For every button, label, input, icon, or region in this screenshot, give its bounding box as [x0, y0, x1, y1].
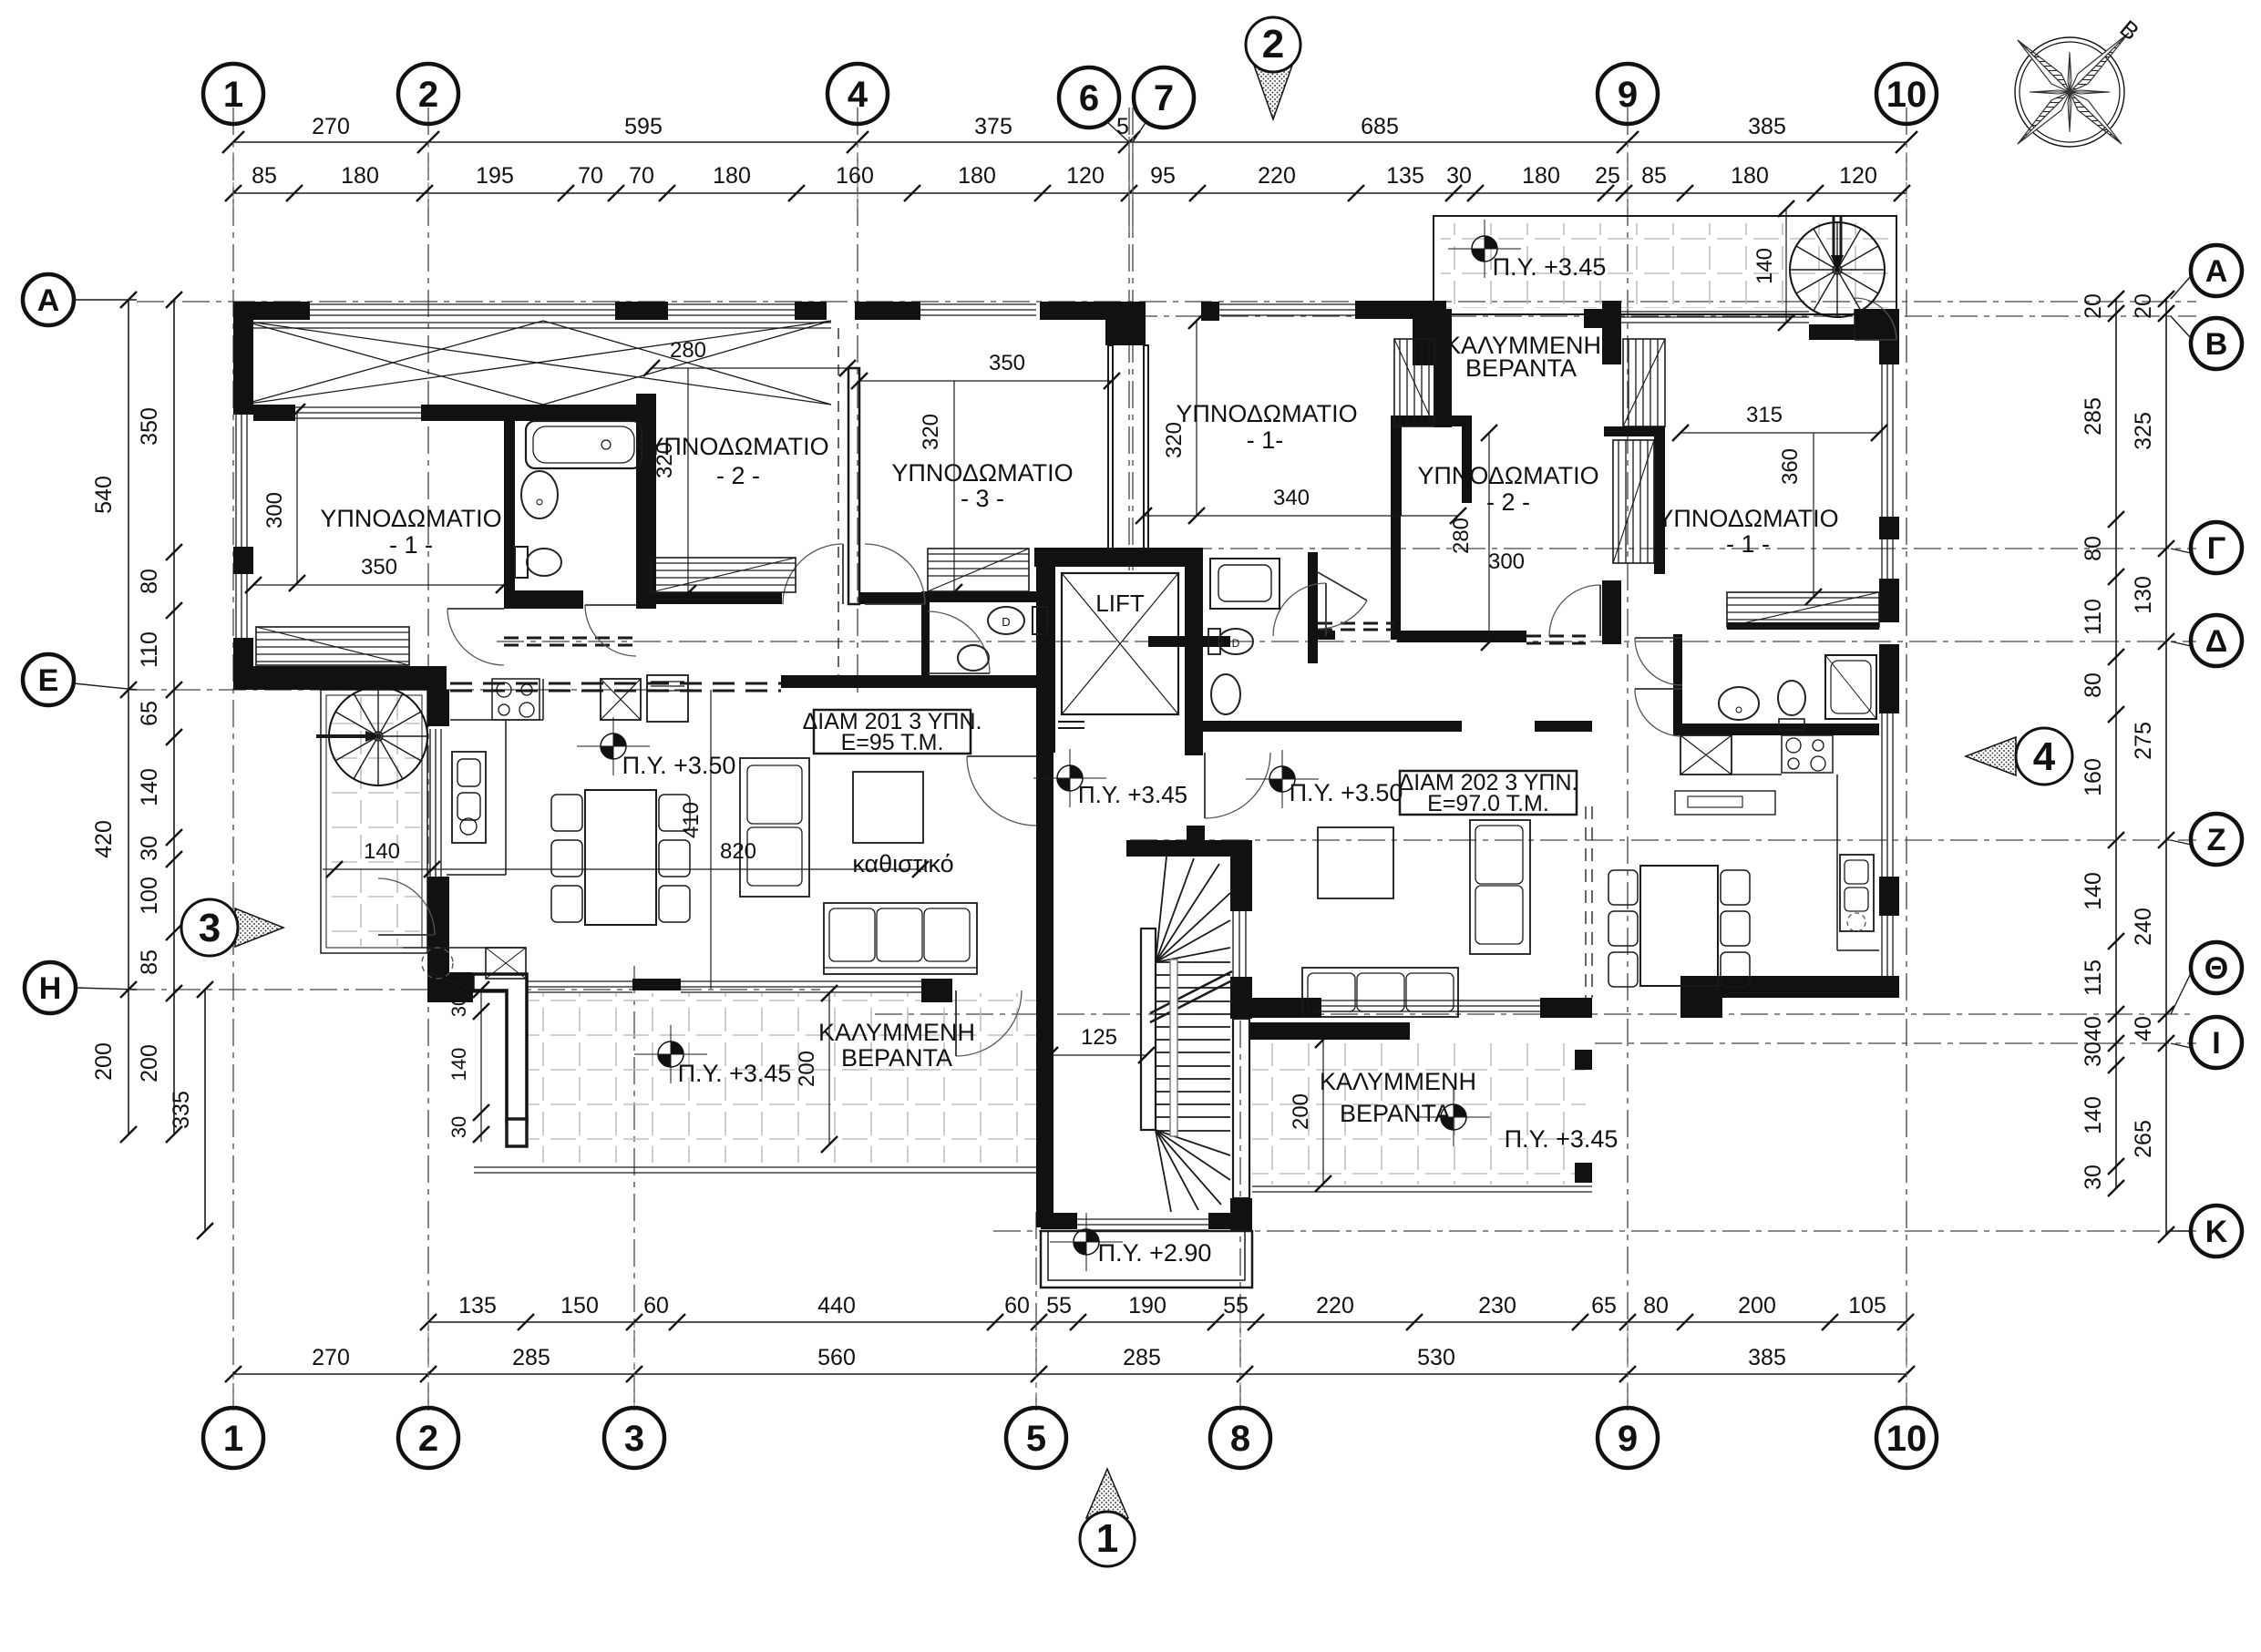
- wall veranda202 left vert: [1434, 309, 1452, 427]
- wall left col seg2: [233, 547, 253, 574]
- porch box: [1041, 1231, 1252, 1288]
- veranda bottom-left border: [474, 1166, 1036, 1168]
- shaft junction block: [1105, 302, 1146, 345]
- wall right outer seg3: [1879, 877, 1899, 916]
- svg-text:440: 440: [817, 1293, 856, 1319]
- svg-text:110: 110: [137, 631, 162, 668]
- grid line 4 (vertical): [857, 108, 858, 693]
- svg-text:3: 3: [199, 906, 221, 950]
- level symbol porch: [1086, 1229, 1099, 1242]
- level symbol veranda top: [1485, 236, 1497, 249]
- grid line 2 (vertical): [427, 108, 429, 1411]
- svg-text:375: 375: [974, 114, 1012, 139]
- veranda tiles bottom-right: [1252, 1043, 1586, 1185]
- veranda tiles top-right: [1434, 216, 1896, 314]
- grid bubble Δ right: [2191, 615, 2242, 666]
- svg-text:320: 320: [1162, 422, 1187, 458]
- stair treads: [1156, 961, 1230, 963]
- wall row E WC bottom: [921, 675, 1036, 688]
- svg-text:85: 85: [252, 163, 277, 189]
- spiral stair left: [329, 687, 427, 785]
- dim 360 bedroom1-202r: [1813, 433, 1814, 597]
- kitchen202 fridge: [1680, 735, 1732, 775]
- window left col 2: [235, 574, 237, 638]
- corridor201 dashes row D: [504, 637, 638, 640]
- door bedroom3-201: [865, 544, 925, 604]
- wall living202 top seg2: [1535, 721, 1592, 732]
- dashed roof edge line: [838, 328, 839, 683]
- svg-text:D: D: [1232, 637, 1240, 650]
- svg-text:285: 285: [1123, 1345, 1161, 1370]
- door veranda spiral: [378, 878, 435, 935]
- svg-text:530: 530: [1417, 1345, 1455, 1370]
- svg-text:220: 220: [1316, 1293, 1354, 1319]
- grid bubble 4 top: [827, 64, 888, 124]
- svg-text:40: 40: [2131, 1016, 2156, 1041]
- svg-text:- 3 -: - 3 -: [961, 485, 1004, 512]
- svg-text:180: 180: [1522, 163, 1560, 189]
- wall kitchen202 corner: [1680, 976, 1722, 1018]
- svg-text:350: 350: [361, 555, 397, 580]
- svg-text:4: 4: [2033, 734, 2056, 779]
- sofa C 202 vertical: [1470, 820, 1530, 954]
- window living bottom 2: [681, 980, 921, 982]
- shaft double wall left: [1108, 345, 1113, 549]
- grid bubble 8 bottom: [1210, 1408, 1270, 1468]
- stair landing bar: [1126, 840, 1230, 857]
- svg-text:10: 10: [1886, 1419, 1927, 1459]
- window right col 1: [1881, 364, 1883, 517]
- grid bubble Γ right: [2191, 522, 2242, 573]
- grid bubble 5 bottom: [1006, 1408, 1066, 1468]
- WC202 sink: [1211, 674, 1240, 714]
- svg-text:1: 1: [223, 1419, 243, 1459]
- svg-text:220: 220: [1258, 163, 1296, 189]
- wall top lift block: [1040, 302, 1136, 320]
- wall bath202 left: [1673, 634, 1682, 735]
- wall top row A seg2: [615, 302, 668, 320]
- wardrobe bedroom2-201: [651, 558, 796, 592]
- svg-text:110: 110: [2081, 599, 2106, 635]
- svg-text:140: 140: [137, 768, 162, 806]
- bath202 toilet: [1778, 681, 1805, 715]
- svg-text:2: 2: [418, 1419, 438, 1459]
- dim 340 bedroom1-202: [1144, 515, 1458, 517]
- wardrobe bedroom1-202right: [1727, 592, 1879, 627]
- door bath201: [585, 605, 636, 656]
- svg-text:B: B: [2205, 327, 2228, 362]
- door WC202: [1318, 600, 1367, 629]
- svg-text:Ε=95 Τ.Μ.: Ε=95 Τ.Μ.: [841, 730, 944, 755]
- grid bubble I right: [2191, 1017, 2242, 1068]
- wall living bottom seg3: [921, 979, 952, 1002]
- wall bedroom2-202 bottom: [1397, 631, 1526, 642]
- svg-text:A: A: [2205, 254, 2228, 289]
- svg-text:ΚΑΛΥΜΜΕΝΗ: ΚΑΛΥΜΜΕΝΗ: [818, 1019, 975, 1046]
- section marker 2 (top): [1252, 60, 1294, 119]
- shaft double wall right: [1144, 345, 1148, 549]
- svg-text:595: 595: [624, 114, 663, 139]
- wall bedroom1-202 mid bottom: [1148, 636, 1230, 647]
- wall bath202 top wardrobe line: [1727, 622, 1879, 630]
- wall right outer seg2c: [1879, 644, 1899, 713]
- svg-text:120: 120: [1066, 163, 1105, 189]
- wall right outer col: [1879, 309, 1899, 364]
- svg-text:6: 6: [1079, 78, 1099, 118]
- door WC201: [928, 611, 990, 673]
- dim 350 bedroom1-201: [253, 584, 504, 586]
- wall bedroom2 right (thin double): [848, 368, 859, 604]
- door balcony202 top: [1854, 309, 1855, 340]
- window row B left: [1219, 303, 1355, 305]
- kitchen201 stove: [492, 679, 540, 720]
- veranda tiles bottom-left: [529, 993, 1036, 1163]
- svg-text:Γ: Γ: [2207, 531, 2225, 566]
- corridor202 dashes: [1318, 622, 1394, 625]
- dining table 202: [1640, 866, 1718, 986]
- svg-text:I: I: [2212, 1026, 2220, 1061]
- wall bedroom2 bottom: [645, 592, 782, 604]
- wall bed2-202 NE: [1602, 301, 1621, 364]
- svg-text:- 1-: - 1-: [1247, 426, 1284, 454]
- door veranda201 from living: [956, 990, 1022, 1056]
- grid line Z (horizontal): [1130, 839, 2196, 841]
- window top A 1: [310, 303, 615, 305]
- grid line I (horizontal): [1595, 1042, 2196, 1044]
- svg-text:180: 180: [341, 163, 379, 189]
- dashed divider living/dining 202: [1585, 806, 1587, 998]
- door bedroom1-201: [447, 609, 504, 665]
- svg-text:20: 20: [2131, 293, 2156, 319]
- svg-text:240: 240: [2131, 908, 2156, 946]
- svg-text:315: 315: [1746, 403, 1783, 427]
- svg-text:280: 280: [670, 338, 706, 363]
- dim 200 veranda bl: [828, 993, 830, 1144]
- window row B right: [1620, 311, 1809, 313]
- svg-text:- 1 -: - 1 -: [1726, 530, 1770, 558]
- grid bubble A right: [2191, 245, 2242, 296]
- grid bubble K right: [2191, 1206, 2242, 1257]
- svg-text:80: 80: [2081, 536, 2106, 561]
- svg-text:80: 80: [2081, 672, 2106, 698]
- svg-text:160: 160: [2081, 758, 2106, 796]
- svg-text:115: 115: [2081, 959, 2106, 996]
- bottom dimension line chain 1: [428, 1321, 1906, 1323]
- apartment box 202: [1400, 771, 1577, 815]
- svg-text:105: 105: [1848, 1293, 1886, 1319]
- wall top row A seg1: [233, 302, 310, 320]
- svg-text:30: 30: [2081, 1165, 2106, 1190]
- svg-text:5: 5: [1026, 1419, 1046, 1459]
- grid line 5 (vertical): [1035, 1212, 1037, 1411]
- svg-text:9: 9: [1618, 1419, 1638, 1459]
- grid bubble 3 bottom: [604, 1408, 664, 1468]
- wall left col seg3: [233, 638, 253, 690]
- grid bubble 10 bottom: [1876, 1408, 1937, 1468]
- svg-text:9: 9: [1618, 75, 1638, 115]
- svg-text:420: 420: [91, 820, 117, 858]
- veranda tiles spiral-left: [321, 690, 427, 953]
- wall bedroom2-202 left: [1391, 503, 1401, 640]
- grid bubble 2 bottom: [398, 1408, 458, 1468]
- wall stair left: [1036, 753, 1053, 1227]
- dim 820 living201: [323, 868, 924, 870]
- wall row B seg1: [1355, 301, 1446, 319]
- spiral stair top-right: [1790, 222, 1885, 317]
- wall bedroom1/bath divider: [504, 412, 515, 609]
- grid bubble 7 top: [1134, 67, 1194, 128]
- dim 280 bedroom2-201: [652, 367, 848, 369]
- door apt201 entry: [967, 756, 1036, 826]
- svg-text:Π.Υ. +3.50: Π.Υ. +3.50: [622, 752, 736, 779]
- bath202 shower: [1825, 655, 1876, 719]
- svg-text:85: 85: [1641, 163, 1667, 189]
- dim 320 bedroom3-201: [953, 381, 955, 592]
- WC202 toilet: [1208, 629, 1220, 654]
- veranda wall L outline: [473, 974, 527, 1123]
- left dim 335: [204, 990, 206, 1231]
- wall left col seg1: [233, 302, 253, 415]
- stair cut line: [1150, 971, 1232, 1013]
- svg-text:E: E: [38, 663, 59, 698]
- door apt202 entry: [1205, 753, 1270, 818]
- svg-text:335: 335: [169, 1091, 194, 1129]
- dim 125 stair: [1039, 1054, 1146, 1056]
- svg-text:190: 190: [1128, 1293, 1166, 1319]
- svg-text:280: 280: [1449, 518, 1474, 554]
- svg-text:70: 70: [578, 163, 603, 189]
- grid bubble 1 top: [203, 64, 263, 124]
- dim 280 bedroom2-202: [1488, 433, 1490, 642]
- grid bubble 9 bottom: [1598, 1408, 1658, 1468]
- svg-text:140: 140: [1752, 248, 1777, 284]
- svg-text:285: 285: [2081, 397, 2106, 436]
- svg-text:10: 10: [1886, 75, 1927, 115]
- svg-text:Π.Υ. +3.45: Π.Υ. +3.45: [678, 1060, 792, 1087]
- wall bath202 bottom: [1682, 723, 1879, 735]
- svg-text:95: 95: [1150, 163, 1176, 189]
- wall inner top bath: [421, 405, 653, 421]
- wardrobe bedroom2-202 left: [1394, 339, 1434, 426]
- svg-text:685: 685: [1361, 114, 1399, 139]
- svg-text:200: 200: [91, 1042, 117, 1081]
- sofa A 201: [740, 758, 809, 897]
- level symbol kitchen 201: [613, 734, 626, 746]
- svg-text:Δ: Δ: [2205, 624, 2227, 659]
- wardrobe bedroom2-202 right upper: [1623, 339, 1665, 426]
- grid line Γ (horizontal): [1048, 548, 2196, 549]
- svg-text:275: 275: [2131, 722, 2156, 760]
- wall stair bottom left block: [1041, 1213, 1077, 1229]
- window right col 3: [1881, 916, 1883, 976]
- svg-text:100: 100: [137, 877, 162, 915]
- wall living left low: [427, 877, 449, 979]
- wall bath/bedroom2 divider: [636, 394, 656, 609]
- window top A 2: [668, 303, 795, 305]
- svg-text:325: 325: [2131, 412, 2156, 450]
- window right col 2: [1881, 713, 1883, 877]
- kitchen202 sink: [1840, 855, 1874, 931]
- grid line 10 (vertical): [1906, 108, 1907, 1411]
- wardrobe bedroom2-202 right lower: [1613, 440, 1654, 563]
- svg-text:Θ: Θ: [2204, 951, 2228, 986]
- roof cross area: [242, 321, 831, 405]
- svg-text:LIFT: LIFT: [1095, 590, 1145, 617]
- svg-text:150: 150: [560, 1293, 599, 1319]
- wall bedroom3 bottom left stub: [859, 592, 921, 604]
- svg-text:195: 195: [476, 163, 514, 189]
- sideboard 202: [1675, 791, 1775, 815]
- svg-text:200: 200: [1289, 1093, 1313, 1130]
- wall WC201 top: [921, 591, 1053, 602]
- svg-text:135: 135: [458, 1293, 497, 1319]
- wall kitchen202 bottom: [1722, 976, 1879, 998]
- bathtub 201: [526, 421, 642, 468]
- kitchen201 cabinet: [647, 675, 688, 722]
- wall row E bottom bedroom1: [233, 666, 447, 690]
- svg-text:80: 80: [137, 569, 162, 594]
- wall living202 bottom seg2: [1540, 998, 1592, 1018]
- dim 350 bedroom3-201: [859, 380, 1112, 382]
- stair bottom window: [1077, 1218, 1208, 1220]
- svg-text:410: 410: [679, 802, 704, 838]
- left outer dim chain: [128, 300, 129, 1134]
- wall lift right: [1185, 550, 1203, 755]
- svg-text:40: 40: [2081, 1016, 2106, 1041]
- svg-text:65: 65: [1591, 1293, 1617, 1319]
- grid bubble B right: [2191, 318, 2242, 369]
- stair landing stub: [1187, 826, 1205, 840]
- svg-text:540: 540: [91, 476, 117, 514]
- svg-text:2: 2: [1262, 22, 1284, 67]
- stair winders: [1156, 857, 1166, 962]
- kitchen201 washer corner: [403, 947, 526, 949]
- svg-text:285: 285: [512, 1345, 550, 1370]
- window inner top bedroom1: [295, 406, 421, 408]
- svg-text:ΥΠΝΟΔΩΜΑΤΙΟ: ΥΠΝΟΔΩΜΑΤΙΟ: [1417, 462, 1598, 489]
- lift car: [1062, 573, 1178, 714]
- grid line 8 (vertical): [1239, 1021, 1241, 1411]
- grid line E (horizontal): [128, 689, 693, 691]
- svg-text:Π.Υ. +3.45: Π.Υ. +3.45: [1078, 781, 1187, 808]
- door bedroom1-202mid: [1273, 583, 1326, 636]
- svg-text:55: 55: [1223, 1293, 1249, 1319]
- dim 315 bedroom1-202r: [1680, 432, 1879, 434]
- bottom dimension line chain 2: [233, 1373, 1906, 1375]
- dim 140 veranda top: [1785, 209, 1787, 323]
- wall living left (col grid2): [427, 690, 449, 726]
- svg-text:270: 270: [312, 1345, 350, 1370]
- grid line B (horizontal): [1130, 315, 2196, 317]
- svg-text:ΒΕΡΑΝΤΑ: ΒΕΡΑΝΤΑ: [1340, 1100, 1451, 1127]
- svg-text:200: 200: [137, 1044, 162, 1083]
- kitchen202 stove: [1782, 735, 1833, 773]
- svg-text:30: 30: [2081, 1041, 2106, 1067]
- svg-text:55: 55: [1046, 1293, 1072, 1319]
- lift door: [1058, 721, 1084, 723]
- svg-text:70: 70: [629, 163, 654, 189]
- section marker 1 (bottom): [1086, 1469, 1128, 1518]
- svg-text:180: 180: [713, 163, 751, 189]
- svg-text:360: 360: [1778, 448, 1803, 485]
- kitchen dashed beam row E: [450, 682, 781, 685]
- svg-text:- 2 -: - 2 -: [716, 462, 760, 489]
- svg-text:2: 2: [418, 75, 438, 115]
- stair handrail: [1170, 959, 1177, 1136]
- svg-text:300: 300: [262, 492, 287, 528]
- veranda202 col top: [1575, 1050, 1592, 1070]
- svg-text:820: 820: [720, 839, 756, 864]
- sofa D 202 horizontal: [1302, 968, 1458, 1017]
- svg-text:85: 85: [137, 949, 162, 975]
- svg-text:3: 3: [624, 1419, 644, 1459]
- svg-text:H: H: [39, 971, 62, 1006]
- window living202 bottom: [1321, 1000, 1540, 1001]
- window left col 1: [235, 415, 237, 547]
- svg-text:A: A: [37, 283, 60, 318]
- svg-text:140: 140: [2081, 872, 2106, 910]
- svg-text:Ε=97.0 Τ.Μ.: Ε=97.0 Τ.Μ.: [1427, 791, 1549, 816]
- svg-text:80: 80: [1643, 1293, 1669, 1319]
- wall row E mid (corridor bottom): [781, 675, 921, 688]
- svg-text:60: 60: [1004, 1293, 1030, 1319]
- svg-text:καθιστικό: καθιστικό: [852, 850, 953, 877]
- dim 320 bedroom1-202: [1196, 321, 1197, 516]
- svg-text:385: 385: [1748, 114, 1786, 139]
- wall inner top bedroom1: [253, 405, 295, 421]
- toilet 201: [515, 547, 528, 578]
- kitchen201 side counter: [505, 720, 507, 875]
- section marker 4 (right): [1966, 737, 2016, 775]
- wall lift left upper: [1036, 548, 1055, 567]
- svg-text:ΥΠΝΟΔΩΜΑΤΙΟ: ΥΠΝΟΔΩΜΑΤΙΟ: [1657, 505, 1838, 532]
- svg-text:ΒΕΡΑΝΤΑ: ΒΕΡΑΝΤΑ: [841, 1044, 952, 1072]
- svg-text:60: 60: [643, 1293, 669, 1319]
- window right col 1b: [1881, 539, 1883, 579]
- kitchen202 counter: [1732, 774, 1782, 775]
- svg-text:560: 560: [817, 1345, 856, 1370]
- right outer dim chain: [2165, 299, 2167, 1235]
- wall living bottom corner: [427, 977, 473, 1002]
- grid line Θ (horizontal): [875, 1013, 2196, 1015]
- door bedroom2-202: [1549, 585, 1600, 636]
- svg-text:140: 140: [2081, 1096, 2106, 1134]
- svg-text:4: 4: [848, 75, 868, 115]
- wall lift left: [1036, 567, 1055, 753]
- svg-text:1: 1: [1096, 1516, 1118, 1561]
- wall row B seg0: [1201, 302, 1219, 321]
- grid bubble Z right: [2191, 814, 2242, 865]
- wall top row A seg3: [795, 302, 827, 320]
- window living left: [429, 729, 431, 877]
- dim 200 veranda br: [1322, 1040, 1324, 1184]
- grid line H (horizontal): [128, 989, 820, 990]
- svg-text:Π.Υ. +3.45: Π.Υ. +3.45: [1505, 1125, 1619, 1153]
- wall veranda left col: [1413, 309, 1452, 365]
- stair right window: [1232, 911, 1234, 977]
- grid line A (horizontal): [137, 301, 2196, 303]
- compass rose: [2015, 37, 2124, 147]
- right inner dim chain: [2115, 299, 2117, 1188]
- wall living202 top seg1: [1203, 721, 1462, 732]
- svg-text:160: 160: [836, 163, 874, 189]
- svg-text:320: 320: [919, 414, 943, 450]
- svg-text:K: K: [2205, 1215, 2228, 1249]
- svg-text:D: D: [1002, 615, 1010, 629]
- grid bubble 10 top: [1876, 64, 1937, 124]
- WC202 basin unit: [1210, 559, 1280, 609]
- svg-text:200: 200: [795, 1051, 819, 1087]
